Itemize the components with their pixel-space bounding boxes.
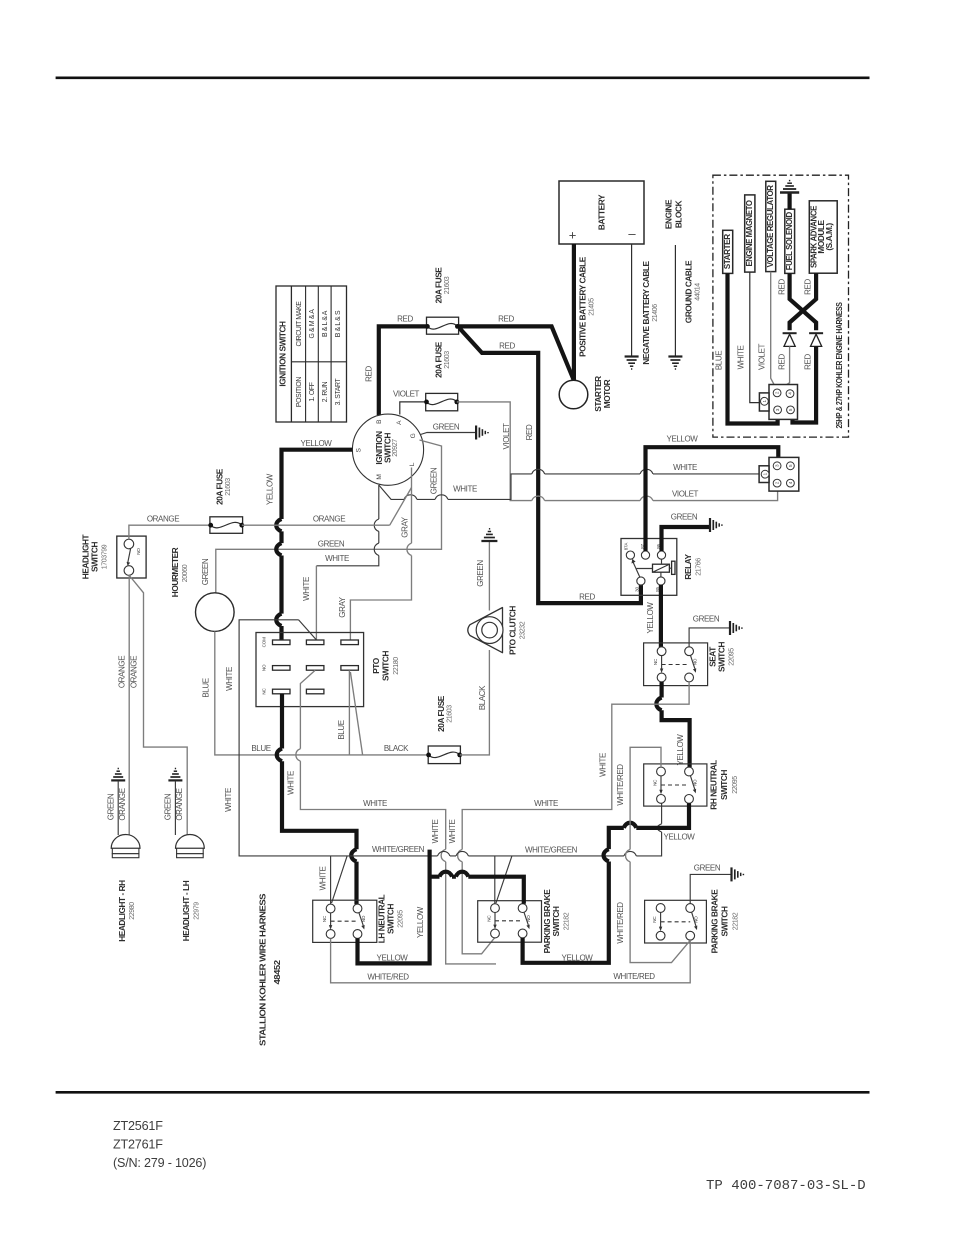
engine magneto box [745, 195, 755, 272]
svg-text:21406: 21406 [652, 304, 659, 322]
svg-text:VIOLET: VIOLET [502, 423, 511, 450]
svg-text:(S/N: 279 - 1026): (S/N: 279 - 1026) [113, 1156, 206, 1170]
svg-text:STALLION KOHLER WIRE HARNESS: STALLION KOHLER WIRE HARNESS [258, 893, 268, 1046]
svg-text:BLUE: BLUE [337, 720, 346, 739]
svg-text:BATTERY: BATTERY [597, 194, 607, 230]
svg-text:SWITCH: SWITCH [386, 904, 396, 934]
connector pin 2 [773, 389, 781, 397]
green wire seat switch to ground [689, 628, 729, 647]
white/red wire RH NC top net [630, 747, 690, 962]
ignition switch circle [352, 414, 423, 485]
svg-text:22095: 22095 [729, 648, 736, 666]
svg-text:22182: 22182 [733, 912, 740, 930]
svg-text:WHITE: WHITE [325, 554, 349, 563]
svg-text:WHITE: WHITE [534, 799, 558, 808]
svg-text:COM: COM [262, 637, 267, 647]
svg-text:SWITCH: SWITCH [717, 642, 727, 672]
svg-text:SWITCH: SWITCH [90, 542, 100, 572]
green wire PTO clutch to ground [488, 542, 490, 611]
svg-text:WHITE: WHITE [448, 820, 457, 844]
orange wire fuse3 to ignition L diagonal [242, 524, 390, 526]
fuel solenoid box [785, 209, 795, 273]
svg-text:1703799: 1703799 [102, 544, 109, 569]
svg-text:20060: 20060 [182, 564, 189, 582]
headlight RH orange feed wire [128, 575, 130, 835]
svg-text:WHITE: WHITE [319, 867, 328, 891]
relay pin 86 [657, 551, 665, 559]
connector pin 1 [761, 397, 769, 405]
svg-text:RED: RED [777, 279, 786, 295]
svg-text:21766: 21766 [696, 558, 703, 576]
svg-text:NC: NC [487, 915, 492, 922]
negative battery cable wire [631, 244, 633, 356]
relay armature [633, 562, 640, 578]
svg-text:GREEN: GREEN [433, 423, 460, 432]
svg-text:VIOLET: VIOLET [672, 490, 699, 499]
engine harness connector block [769, 385, 798, 420]
ignition switch table [276, 286, 347, 422]
wire violet regulator to pin2 [771, 272, 777, 389]
sideways ground seat switch [730, 621, 742, 635]
svg-text:1. OFF: 1. OFF [309, 382, 316, 401]
svg-text:POSITION: POSITION [296, 377, 303, 407]
headlight switch box [117, 536, 146, 578]
wire to PTO com2 diagonal [299, 620, 317, 640]
svg-text:RED: RED [365, 366, 374, 382]
svg-text:SWITCH: SWITCH [720, 906, 730, 936]
spark advance module box [809, 201, 837, 273]
svg-text:WHITE: WHITE [224, 788, 233, 812]
svg-text:YELLOW: YELLOW [377, 954, 409, 963]
svg-text:ORANGE: ORANGE [313, 515, 345, 524]
mid parking brake switch box [478, 901, 542, 943]
relay pin 85 [657, 577, 665, 585]
svg-text:SWITCH: SWITCH [381, 651, 391, 681]
svg-text:IGNITION SWITCH: IGNITION SWITCH [277, 321, 287, 387]
ground below negative cable [625, 357, 639, 370]
wire red diode right to pin5 [793, 346, 817, 422]
svg-text:WHITE: WHITE [287, 771, 296, 795]
green wire headlight RH [117, 781, 119, 835]
svg-text:GREEN: GREEN [671, 513, 698, 522]
svg-text:SWITCH: SWITCH [382, 433, 392, 463]
svg-text:G & M & A: G & M & A [309, 309, 316, 339]
svg-text:YELLOW: YELLOW [676, 734, 685, 766]
yellow thick wire relay 85 to seat switch [659, 585, 663, 647]
svg-text:22182: 22182 [564, 912, 571, 930]
svg-text:RED: RED [777, 354, 786, 370]
svg-text:NO: NO [361, 915, 366, 922]
sideways ground RH parking [732, 867, 744, 881]
white/red long wire RH parking NO bottom to LH NC bottom [331, 938, 691, 982]
svg-text:VOLTAGE REGULATOR: VOLTAGE REGULATOR [765, 185, 775, 267]
svg-text:3. START: 3. START [335, 377, 342, 405]
svg-text:GREEN: GREEN [476, 560, 485, 587]
svg-text:WHITE/GREEN: WHITE/GREEN [372, 845, 425, 854]
headlight LH dome [176, 835, 205, 849]
svg-text:22979: 22979 [193, 902, 200, 920]
svg-text:WHITE: WHITE [599, 753, 608, 777]
svg-text:BLUE: BLUE [202, 678, 211, 697]
wire red diode left to pin2 [779, 346, 790, 390]
yellow thick wire LH NO bottom to mid parking NO top [358, 850, 524, 964]
svg-text:NO: NO [136, 548, 141, 555]
harness mate connector block [769, 457, 799, 491]
svg-text:HEADLIGHT - LH: HEADLIGHT - LH [181, 880, 191, 941]
yellow thick wire PTO nc1 down to LH neutral [282, 694, 357, 904]
svg-text:VIOLET: VIOLET [393, 390, 420, 399]
svg-text:21603: 21603 [447, 705, 454, 723]
svg-text:NC: NC [653, 658, 658, 665]
svg-text:GREEN: GREEN [429, 467, 438, 494]
sideways ground relay 86 [710, 518, 722, 532]
svg-text:HEADLIGHT - RH: HEADLIGHT - RH [117, 880, 127, 942]
svg-text:21603: 21603 [225, 478, 232, 496]
relay pin 30 [637, 577, 645, 585]
svg-text:WHITE/RED: WHITE/RED [613, 972, 655, 981]
svg-text:ORANGE: ORANGE [118, 788, 127, 820]
white wire ignition M down to PTO com2 [316, 485, 378, 566]
svg-text:G: G [410, 433, 417, 438]
svg-text:NO: NO [526, 915, 531, 922]
svg-text:23232: 23232 [520, 621, 527, 639]
svg-text:20A FUSE: 20A FUSE [434, 267, 444, 304]
svg-text:RED: RED [804, 279, 813, 295]
svg-text:WHITE/RED: WHITE/RED [616, 902, 625, 944]
white wire ignition M to connector pin 1 [379, 474, 761, 500]
voltage regulator box [766, 181, 776, 271]
fuse F4 20A [428, 746, 460, 764]
wire blue starter to pin3 [728, 273, 778, 423]
blue wire PTO no3 down [349, 670, 362, 755]
svg-text:SWITCH: SWITCH [551, 906, 561, 936]
white wire WG to mid parking NC top [495, 856, 512, 904]
PTO switch box [256, 633, 364, 707]
svg-text:RED: RED [804, 354, 813, 370]
svg-text:RH NEUTRAL: RH NEUTRAL [709, 760, 719, 810]
fuse F2 20A [426, 393, 458, 410]
svg-text:YELLOW: YELLOW [301, 439, 333, 448]
red wire fuse1 to relay 30 [460, 328, 641, 603]
svg-text:BLUE: BLUE [715, 351, 724, 370]
mate pin 2 [773, 479, 781, 487]
svg-text:WHITE: WHITE [302, 577, 311, 601]
svg-text:YELLOW: YELLOW [266, 473, 275, 505]
mate pin 5 [787, 462, 795, 470]
svg-text:RELAY: RELAY [683, 554, 693, 580]
svg-text:BLOCK: BLOCK [674, 200, 684, 228]
PTO terminals NO row [273, 666, 291, 671]
svg-text:WHITE/RED: WHITE/RED [367, 973, 409, 982]
svg-text:NC: NC [322, 915, 327, 922]
green wire relay 86 to ground [662, 527, 710, 551]
blue wire hourmeter to fuse4 [215, 631, 429, 755]
hourmeter circle [196, 593, 235, 632]
svg-text:NO: NO [262, 664, 267, 671]
violet wire fuse2 to pin 2 of connector [457, 402, 778, 501]
diode left [783, 332, 797, 334]
relay pin 87 [641, 551, 649, 559]
svg-text:RED: RED [579, 593, 595, 602]
svg-text:–: – [628, 226, 636, 241]
svg-text:ZT2761F: ZT2761F [113, 1138, 163, 1152]
svg-text:ENGINE MAGNETO: ENGINE MAGNETO [744, 200, 754, 267]
green wire ignition G down to hourmeter [216, 440, 442, 593]
svg-text:RED: RED [397, 315, 413, 324]
top rule [56, 76, 870, 79]
RH neutral switch box [644, 764, 707, 806]
white wire seat NO to mid parking return [462, 682, 689, 954]
svg-text:ORANGE: ORANGE [117, 656, 126, 688]
LH neutral switch box [313, 900, 377, 942]
white wire WG to LH NC top [331, 856, 347, 904]
relay pin 87A [626, 551, 634, 559]
white/green wire net [239, 620, 661, 856]
svg-text:PTO: PTO [371, 657, 381, 674]
gray wire ignition L to PTO com3 [350, 468, 411, 643]
svg-text:BLACK: BLACK [384, 744, 409, 753]
connector pin 5 [787, 406, 795, 414]
svg-text:21603: 21603 [444, 276, 451, 294]
svg-text:WHITE: WHITE [225, 667, 234, 691]
svg-text:44014: 44014 [695, 283, 702, 301]
battery box [559, 181, 644, 244]
svg-text:WHITE/RED: WHITE/RED [616, 764, 625, 806]
svg-text:+: + [569, 228, 577, 243]
svg-text:RED: RED [498, 315, 514, 324]
fuse F3 20A [210, 517, 243, 534]
svg-text:WHITE/GREEN: WHITE/GREEN [525, 846, 578, 855]
green wire headlight LH [174, 781, 176, 835]
svg-text:20A FUSE: 20A FUSE [436, 695, 446, 732]
wire red SAM crossover [790, 273, 817, 330]
svg-text:WHITE: WHITE [453, 485, 477, 494]
svg-text:WHITE: WHITE [673, 463, 697, 472]
inverted ground above PTO clutch green [481, 529, 497, 541]
svg-text:GREEN: GREEN [164, 793, 173, 820]
svg-text:MOTOR: MOTOR [602, 379, 612, 408]
svg-text:NC: NC [262, 688, 267, 695]
connector pin 4 [786, 390, 794, 398]
violet wire ignition A to fuse2 [400, 402, 427, 415]
svg-text:YELLOW: YELLOW [416, 906, 425, 938]
svg-text:BLACK: BLACK [478, 685, 487, 710]
mate pin 4 [787, 479, 795, 487]
yellow thick wire RH NO bottom to mid parking NO bottom [523, 803, 689, 963]
orange wire diagonal to ignition L [390, 488, 412, 526]
svg-text:VIOLET: VIOLET [758, 343, 767, 370]
svg-text:CIRCUIT MAKE: CIRCUIT MAKE [296, 301, 303, 347]
svg-text:YELLOW: YELLOW [667, 435, 699, 444]
starter motor circle [559, 380, 588, 409]
headlight RH dome [111, 835, 140, 849]
svg-text:NO: NO [693, 658, 698, 665]
ground above headlight RH [111, 769, 125, 781]
svg-text:22980: 22980 [129, 902, 136, 920]
svg-text:SWITCH: SWITCH [719, 770, 729, 800]
ground above headlight LH [168, 769, 182, 781]
svg-text:NO: NO [692, 779, 697, 786]
svg-text:B & L & A: B & L & A [322, 310, 329, 337]
ground below ground cable [668, 357, 682, 370]
yellow thick wire ignition S to PTO com1 [282, 450, 353, 643]
black wire fuse4 to PTO clutch [460, 650, 490, 755]
svg-text:GRAY: GRAY [338, 596, 347, 618]
svg-text:PTO CLUTCH: PTO CLUTCH [508, 606, 518, 655]
svg-text:WHITE: WHITE [363, 799, 387, 808]
svg-text:NC: NC [653, 779, 658, 786]
svg-text:RED: RED [525, 424, 534, 440]
white wire PTO no2 down to parking brake [300, 670, 496, 964]
svg-text:NO: NO [694, 916, 699, 923]
svg-text:GRAY: GRAY [400, 516, 409, 538]
sideways ground at ignition G [476, 426, 488, 440]
mate pin 3 [773, 462, 781, 470]
bottom rule [56, 1091, 870, 1094]
engine harness dash-dot border [713, 175, 849, 437]
PTO clutch symbol [468, 608, 503, 653]
svg-text:22180: 22180 [393, 657, 400, 675]
svg-text:RED: RED [499, 342, 515, 351]
svg-text:48452: 48452 [272, 960, 282, 985]
red wire ignition B to fuse1 [379, 326, 427, 415]
yellow thick wire relay 87 to connector pin 3 [646, 447, 779, 551]
svg-text:GREEN: GREEN [201, 558, 210, 585]
svg-text:NC: NC [652, 916, 657, 923]
fuse F1 20A [427, 317, 459, 334]
positive battery cable wire [572, 244, 576, 381]
svg-text:20927: 20927 [392, 439, 399, 457]
svg-text:ZT2561F: ZT2561F [113, 1119, 163, 1133]
svg-text:2. RUN: 2. RUN [322, 381, 329, 402]
svg-text:22095: 22095 [398, 910, 405, 928]
yellow thick wire seat NC to RH neutral NO [662, 682, 690, 767]
svg-text:GROUND CABLE: GROUND CABLE [684, 260, 694, 323]
PTO terminals COM row [273, 640, 291, 645]
svg-text:PARKING BRAKE: PARKING BRAKE [710, 889, 720, 954]
svg-text:WHITE: WHITE [431, 820, 440, 844]
svg-text:HOURMETER: HOURMETER [170, 547, 180, 597]
svg-text:GREEN: GREEN [106, 793, 115, 820]
svg-text:ENGINE: ENGINE [664, 199, 674, 229]
svg-text:POSITIVE BATTERY CABLE: POSITIVE BATTERY CABLE [578, 256, 588, 357]
svg-text:ORANGE: ORANGE [129, 656, 138, 688]
connector pin 3 [774, 406, 782, 414]
svg-text:20A FUSE: 20A FUSE [434, 341, 444, 378]
svg-text:BLUE: BLUE [251, 744, 270, 753]
relay box [621, 539, 677, 596]
diode right [809, 332, 823, 334]
svg-text:GREEN: GREEN [694, 864, 721, 873]
svg-text:GREEN: GREEN [318, 540, 345, 549]
wire red fuel solenoid crossover [790, 273, 817, 330]
relay coil [653, 564, 670, 572]
ground above fuel solenoid [787, 193, 791, 209]
orange wire headlight switch to fuse3 [129, 525, 211, 539]
red wire fuse1 to starter motor [459, 326, 574, 379]
wire white magneto to pin1 [750, 272, 761, 403]
svg-text:22095: 22095 [732, 776, 739, 794]
svg-text:25HP & 27HP KOHLER ENGINE HARN: 25HP & 27HP KOHLER ENGINE HARNESS [834, 302, 844, 429]
svg-text:B & L & S: B & L & S [335, 310, 342, 337]
mate pin 1 [761, 470, 769, 478]
RH parking brake switch box [645, 900, 707, 943]
svg-text:FUEL SOLENOID: FUEL SOLENOID [784, 212, 794, 270]
seat switch box [644, 643, 708, 686]
green wire RH parking NO top to ground [690, 874, 731, 903]
svg-text:M: M [376, 474, 383, 479]
svg-text:WHITE: WHITE [737, 346, 746, 370]
svg-text:NEGATIVE BATTERY CABLE: NEGATIVE BATTERY CABLE [641, 260, 651, 364]
svg-text:STARTER: STARTER [722, 234, 732, 269]
svg-text:(S.A.M.): (S.A.M.) [824, 223, 834, 251]
green wire ignition G to ground [421, 433, 476, 435]
svg-text:YELLOW: YELLOW [562, 954, 594, 963]
ground cable wire [674, 245, 676, 356]
svg-text:30: 30 [635, 587, 640, 592]
svg-text:ORANGE: ORANGE [147, 515, 179, 524]
svg-text:20A FUSE: 20A FUSE [215, 468, 225, 505]
svg-text:ORANGE: ORANGE [175, 788, 184, 820]
PTO terminals NC row [273, 689, 291, 694]
svg-text:21405: 21405 [589, 298, 596, 316]
starter component box [723, 230, 733, 273]
headlight LH orange feed wire [129, 575, 187, 835]
svg-text:YELLOW: YELLOW [646, 602, 655, 634]
svg-text:YELLOW: YELLOW [664, 833, 696, 842]
svg-text:21603: 21603 [444, 351, 451, 369]
svg-text:GREEN: GREEN [693, 615, 720, 624]
svg-text:87A: 87A [624, 542, 629, 551]
svg-text:TP 400-7087-03-SL-D: TP 400-7087-03-SL-D [706, 1178, 866, 1194]
